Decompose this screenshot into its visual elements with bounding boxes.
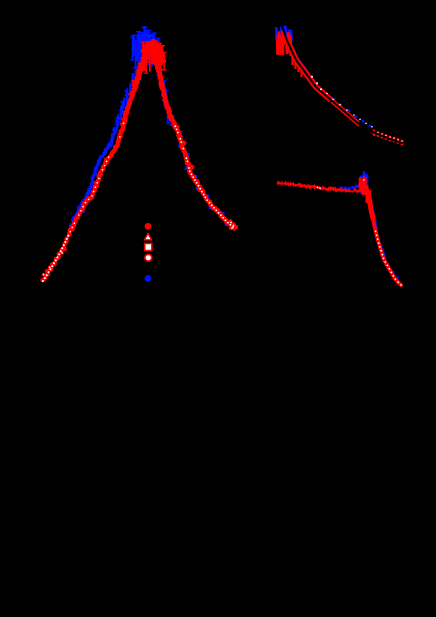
main plot: lone red error bar left of peak [141, 42, 146, 64]
main plot: red series rope left flank [40, 41, 153, 282]
main plot: blue series right-inner-flank bars [153, 50, 171, 123]
bottom-right inset: red flat speckle line [277, 181, 348, 194]
top-right inset: black fit curve [282, 24, 403, 143]
top-right inset: red series blob and band [277, 31, 403, 146]
legend marker: red filled circle [145, 223, 152, 230]
bottom-right inset: red bump [346, 176, 370, 207]
main plot: red series rope right flank [151, 43, 237, 230]
legend marker: red open circle [145, 254, 152, 261]
main plot: red series upper-left striation bars [120, 44, 148, 128]
legend marker: red open square [145, 244, 152, 251]
main plot: blue series upper-left striation bars [112, 53, 144, 134]
legend marker: blue filled circle [145, 275, 152, 282]
bottom-right inset: blue series [339, 171, 398, 279]
main plot: blue series right-flank fragments [170, 123, 228, 226]
legend marker: red open triangle [145, 234, 152, 240]
main plot: red series peak error-bar cluster [142, 40, 167, 73]
top-right inset: blue series blob and rope [276, 25, 371, 128]
bottom-right inset: red fall rope [368, 189, 402, 286]
main plot: blue series peak error-bar cluster [130, 27, 160, 70]
main plot: blue series left-flank rope [69, 127, 117, 229]
top-right inset: white centers on red band [311, 76, 373, 128]
main plot: white centers of red open markers [42, 123, 238, 283]
